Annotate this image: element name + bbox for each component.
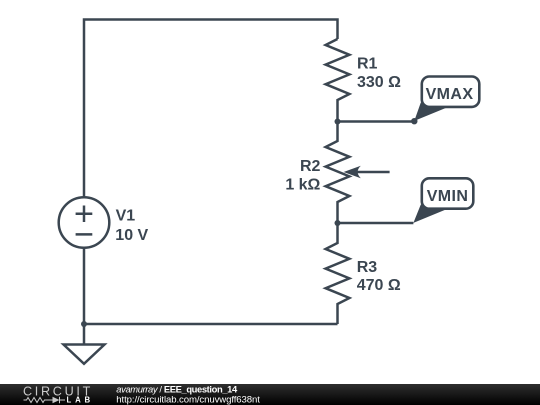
svg-text:R3: R3 xyxy=(357,259,378,276)
svg-text:1 kΩ: 1 kΩ xyxy=(285,177,320,194)
svg-text:330 Ω: 330 Ω xyxy=(357,74,401,91)
svg-text:avamurray / EEE_question_14: avamurray / EEE_question_14 xyxy=(116,383,238,394)
svg-text:10 V: 10 V xyxy=(115,227,148,244)
svg-text:470 Ω: 470 Ω xyxy=(357,277,401,294)
svg-text:LAB: LAB xyxy=(67,395,94,404)
svg-text:http://circuitlab.com/cnuvwgff: http://circuitlab.com/cnuvwgff638nt xyxy=(116,394,260,405)
svg-text:VMAX: VMAX xyxy=(426,86,474,103)
svg-text:R2: R2 xyxy=(300,158,321,175)
svg-text:R1: R1 xyxy=(357,56,378,73)
svg-text:V1: V1 xyxy=(116,207,136,224)
svg-text:VMIN: VMIN xyxy=(427,188,469,205)
